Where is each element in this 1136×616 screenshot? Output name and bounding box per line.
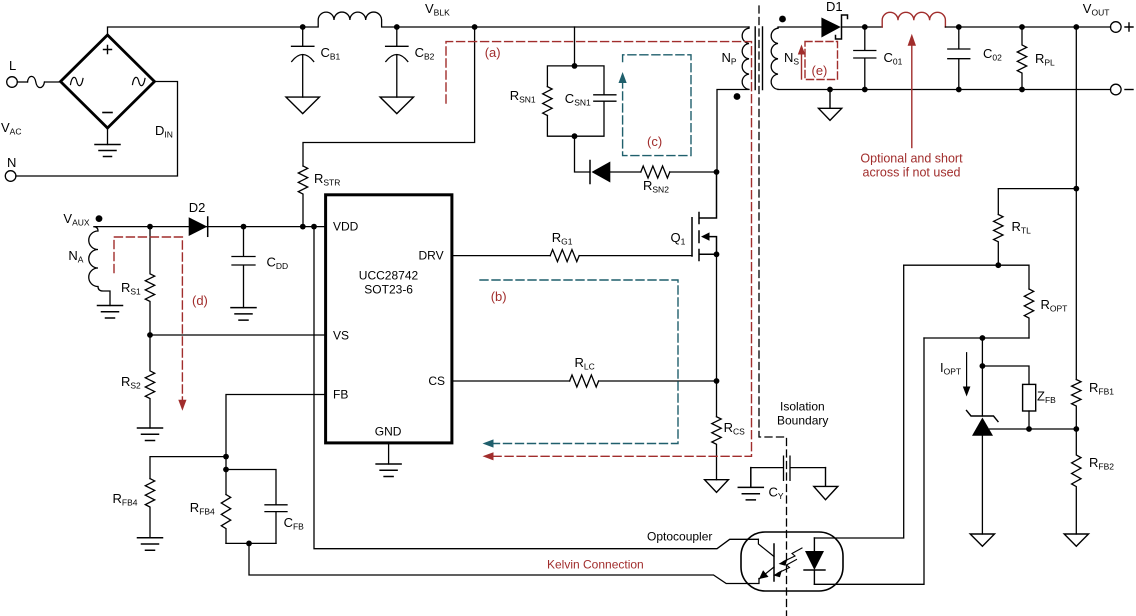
inductor NA aux winding xyxy=(89,227,110,306)
ground CB2 triangle xyxy=(380,97,413,114)
svg-text:VDD: VDD xyxy=(333,220,359,234)
optocoupler body xyxy=(741,532,843,591)
capacitor C02 xyxy=(948,27,970,90)
svg-text:Boundary: Boundary xyxy=(777,414,828,428)
svg-text:N: N xyxy=(7,155,16,170)
wire RG1 to gate xyxy=(579,255,692,257)
node VDD junction opto branch xyxy=(311,224,317,230)
node VOUT branch xyxy=(1073,24,1079,30)
node primary phase dot xyxy=(734,93,741,100)
wire FB node to RFB4 left xyxy=(150,457,226,479)
wire down to snubber xyxy=(574,27,576,66)
wire VDD rail xyxy=(94,226,326,228)
resistor RG1 xyxy=(550,250,579,262)
capacitor CDD xyxy=(232,227,255,308)
capacitor CY xyxy=(751,456,826,480)
resistor RPL xyxy=(1017,27,1026,90)
bridge minus sign xyxy=(103,112,112,114)
wire parallel RC bottom xyxy=(226,542,276,544)
node drain junction xyxy=(714,169,720,175)
node CDD junction xyxy=(241,224,247,230)
wire ROPT bottom xyxy=(924,337,1029,339)
resistor RSTR xyxy=(298,166,307,227)
wire VDD down to optocoupler xyxy=(314,227,758,549)
node snubber top xyxy=(572,63,578,69)
resistor RLC xyxy=(570,375,599,387)
wire output rail bottom xyxy=(778,88,1111,90)
diode D1 schottky xyxy=(821,18,840,38)
wire ZFB bottom xyxy=(1028,411,1030,429)
svg-text:(b): (b) xyxy=(491,289,507,304)
inductor LIN input filter xyxy=(303,12,397,27)
svg-text:D1: D1 xyxy=(826,0,843,14)
snubber frame wires xyxy=(547,66,604,172)
node RTL branch xyxy=(1073,186,1079,192)
wire fuse to bridge xyxy=(45,81,61,83)
transformer primary winding NP xyxy=(717,27,749,172)
resistor RSN2 xyxy=(641,166,670,178)
svg-text:(c): (c) xyxy=(647,134,662,149)
zener shunt regulator xyxy=(967,411,999,422)
bridge plus sign xyxy=(104,46,112,54)
wire parallel RC top xyxy=(226,457,276,505)
wire diode to RSN2 xyxy=(610,171,641,173)
capacitor C01 xyxy=(854,27,876,90)
transformer secondary winding NS xyxy=(771,27,778,90)
wire CS to RLC xyxy=(452,380,570,382)
optocoupler light arrows xyxy=(784,548,803,562)
bridge left sine symbol xyxy=(71,77,84,85)
path e red dashed box xyxy=(805,42,838,80)
node secondary ground junction xyxy=(827,87,833,93)
node RSTR branch xyxy=(472,24,478,30)
wire GND pin xyxy=(388,444,390,464)
bridge rectifier DIN diamond xyxy=(61,35,155,128)
transistor Q1 mosfet xyxy=(692,172,717,261)
ground zener triangle xyxy=(970,534,994,546)
diode DSN snubber (points left) xyxy=(589,161,591,184)
resistor ROPT xyxy=(1024,289,1033,338)
node VS junction xyxy=(147,332,153,338)
capacitor CSN1 xyxy=(594,95,616,101)
diode D2 xyxy=(189,217,208,236)
resistor RS1 xyxy=(145,227,154,335)
node C02 junction xyxy=(956,24,962,30)
ground CY left earth xyxy=(738,468,763,500)
node RPL top xyxy=(1019,24,1025,30)
node C01 bottom xyxy=(862,87,868,93)
wire VOUT down right side xyxy=(1075,27,1077,380)
wire kelvin connection xyxy=(249,543,759,583)
node kelvin junction xyxy=(246,541,252,547)
wire RSN2 to drain node xyxy=(670,171,717,173)
ground chip GND xyxy=(376,464,401,477)
svg-text:Isolation: Isolation xyxy=(780,400,825,414)
arrow IOPT (black) xyxy=(966,353,968,389)
arrow optional inductor (red) xyxy=(911,45,913,147)
wire NS top to D1 xyxy=(778,27,821,28)
wire source down xyxy=(716,254,718,416)
capacitor CB2 xyxy=(386,27,408,97)
node secondary phase dot xyxy=(779,16,786,23)
op-amp U1 UCC28742 box xyxy=(326,195,452,443)
svg-text:(a): (a) xyxy=(485,45,501,60)
wire zener ref line xyxy=(990,428,1077,430)
svg-text:VS: VS xyxy=(333,329,349,343)
svg-text:CS: CS xyxy=(428,374,445,388)
resistor RFB4 parallel xyxy=(221,495,230,544)
node RPL bottom xyxy=(1019,87,1025,93)
svg-text:(e): (e) xyxy=(812,63,828,78)
node FB junction 2 xyxy=(223,467,229,473)
svg-text:DRV: DRV xyxy=(419,249,444,263)
ground RFB4 left xyxy=(138,538,163,551)
wire RTL node to ROPT xyxy=(998,265,1029,289)
wire DRV to RG1 xyxy=(452,255,550,257)
node RS1 top xyxy=(147,224,153,230)
wire FB xyxy=(226,395,326,457)
capacitor CFB xyxy=(265,505,287,544)
wire opto cathode to ROPT node xyxy=(814,338,924,584)
ground NA xyxy=(98,306,123,319)
node CB1 junction xyxy=(300,24,306,30)
node ROPT bottom junction xyxy=(980,335,986,341)
node VOUT plus terminal xyxy=(1111,22,1122,33)
node RFB divider junction xyxy=(1073,426,1079,432)
node ZFB bottom junction xyxy=(1026,426,1032,432)
wire RTL node to opto anode line xyxy=(904,264,999,266)
svg-text:Kelvin Connection: Kelvin Connection xyxy=(547,558,644,572)
wire L to fuse xyxy=(17,81,27,83)
node C01 junction xyxy=(862,24,868,30)
wire VS xyxy=(150,334,326,336)
ground RS2 xyxy=(138,428,163,441)
node source junction xyxy=(714,251,720,257)
node FB junction 1 xyxy=(223,454,229,460)
node ZFB branch xyxy=(980,363,986,369)
wire N to bridge right vertex xyxy=(16,82,178,177)
wire VBLK down to RSTR xyxy=(303,27,475,166)
resistor RSN1 xyxy=(543,87,552,116)
resistor RFB1 xyxy=(1072,380,1081,430)
path d red dashed xyxy=(114,237,182,402)
resistor RFB4 left xyxy=(145,479,154,538)
wire opto anode to RTL node xyxy=(814,265,903,538)
wire bridge bottom to ground xyxy=(107,128,109,145)
fuse F1 squiggle xyxy=(28,76,45,87)
svg-text:L: L xyxy=(9,58,16,73)
resistor RTL xyxy=(994,215,1003,266)
node VAUX phase dot xyxy=(96,215,103,222)
node L terminal xyxy=(7,77,18,88)
node VOUT minus terminal xyxy=(1111,84,1122,95)
svg-text:SOT23-6: SOT23-6 xyxy=(364,283,413,297)
node snubber bottom xyxy=(572,133,578,139)
node C02 bottom xyxy=(956,87,962,93)
transformer core lines xyxy=(755,27,762,90)
svg-text:across if not used: across if not used xyxy=(863,166,961,180)
svg-text:Optional and short: Optional and short xyxy=(860,152,963,166)
path a red dashed xyxy=(446,42,752,457)
ground CB1 triangle xyxy=(286,97,319,114)
capacitor CB1 xyxy=(292,27,314,97)
svg-text:Optocoupler: Optocoupler xyxy=(647,530,712,544)
wire bridge top to VBLK rail xyxy=(108,27,303,35)
node N terminal xyxy=(5,171,16,182)
node VDD junction left xyxy=(300,224,306,230)
wire VBLK rail middle xyxy=(397,26,749,28)
resistor RS2 xyxy=(145,335,154,428)
wire output rail top xyxy=(945,26,1110,28)
node CB2 junction xyxy=(394,24,400,30)
svg-text:FB: FB xyxy=(333,388,348,402)
ground CY right triangle xyxy=(814,468,838,500)
ground RCS triangle xyxy=(705,480,729,493)
isolation boundary dashed line xyxy=(759,6,787,616)
svg-text:GND: GND xyxy=(375,425,402,439)
bridge right sine symbol xyxy=(133,77,146,85)
ground CDD xyxy=(231,308,256,321)
svg-text:(d): (d) xyxy=(192,293,208,308)
resistor RCS xyxy=(712,417,721,480)
wire down to zener xyxy=(981,338,983,416)
node RTL bottom junction xyxy=(995,262,1001,268)
wire VOUT to RTL xyxy=(998,189,1076,215)
path c blue dashed box xyxy=(623,55,691,156)
optocoupler phototransistor xyxy=(773,544,775,581)
ground under bridge xyxy=(95,145,120,157)
wire to ZFB xyxy=(982,366,1029,384)
resistor RFB2 xyxy=(1072,429,1081,534)
wire RLC to source line xyxy=(599,380,717,382)
svg-text:UCC28742: UCC28742 xyxy=(359,269,419,283)
path b blue dashed xyxy=(480,280,678,444)
node CS junction xyxy=(714,378,720,384)
inductor LOUT optional (red) xyxy=(882,12,945,27)
ground secondary triangle xyxy=(819,90,842,121)
optocoupler led xyxy=(805,551,824,570)
ground RFB2 triangle xyxy=(1064,534,1088,546)
wire D1 to C01 node xyxy=(842,26,883,28)
impedance ZFB box xyxy=(1023,384,1036,411)
svg-text:D2: D2 xyxy=(189,200,206,215)
